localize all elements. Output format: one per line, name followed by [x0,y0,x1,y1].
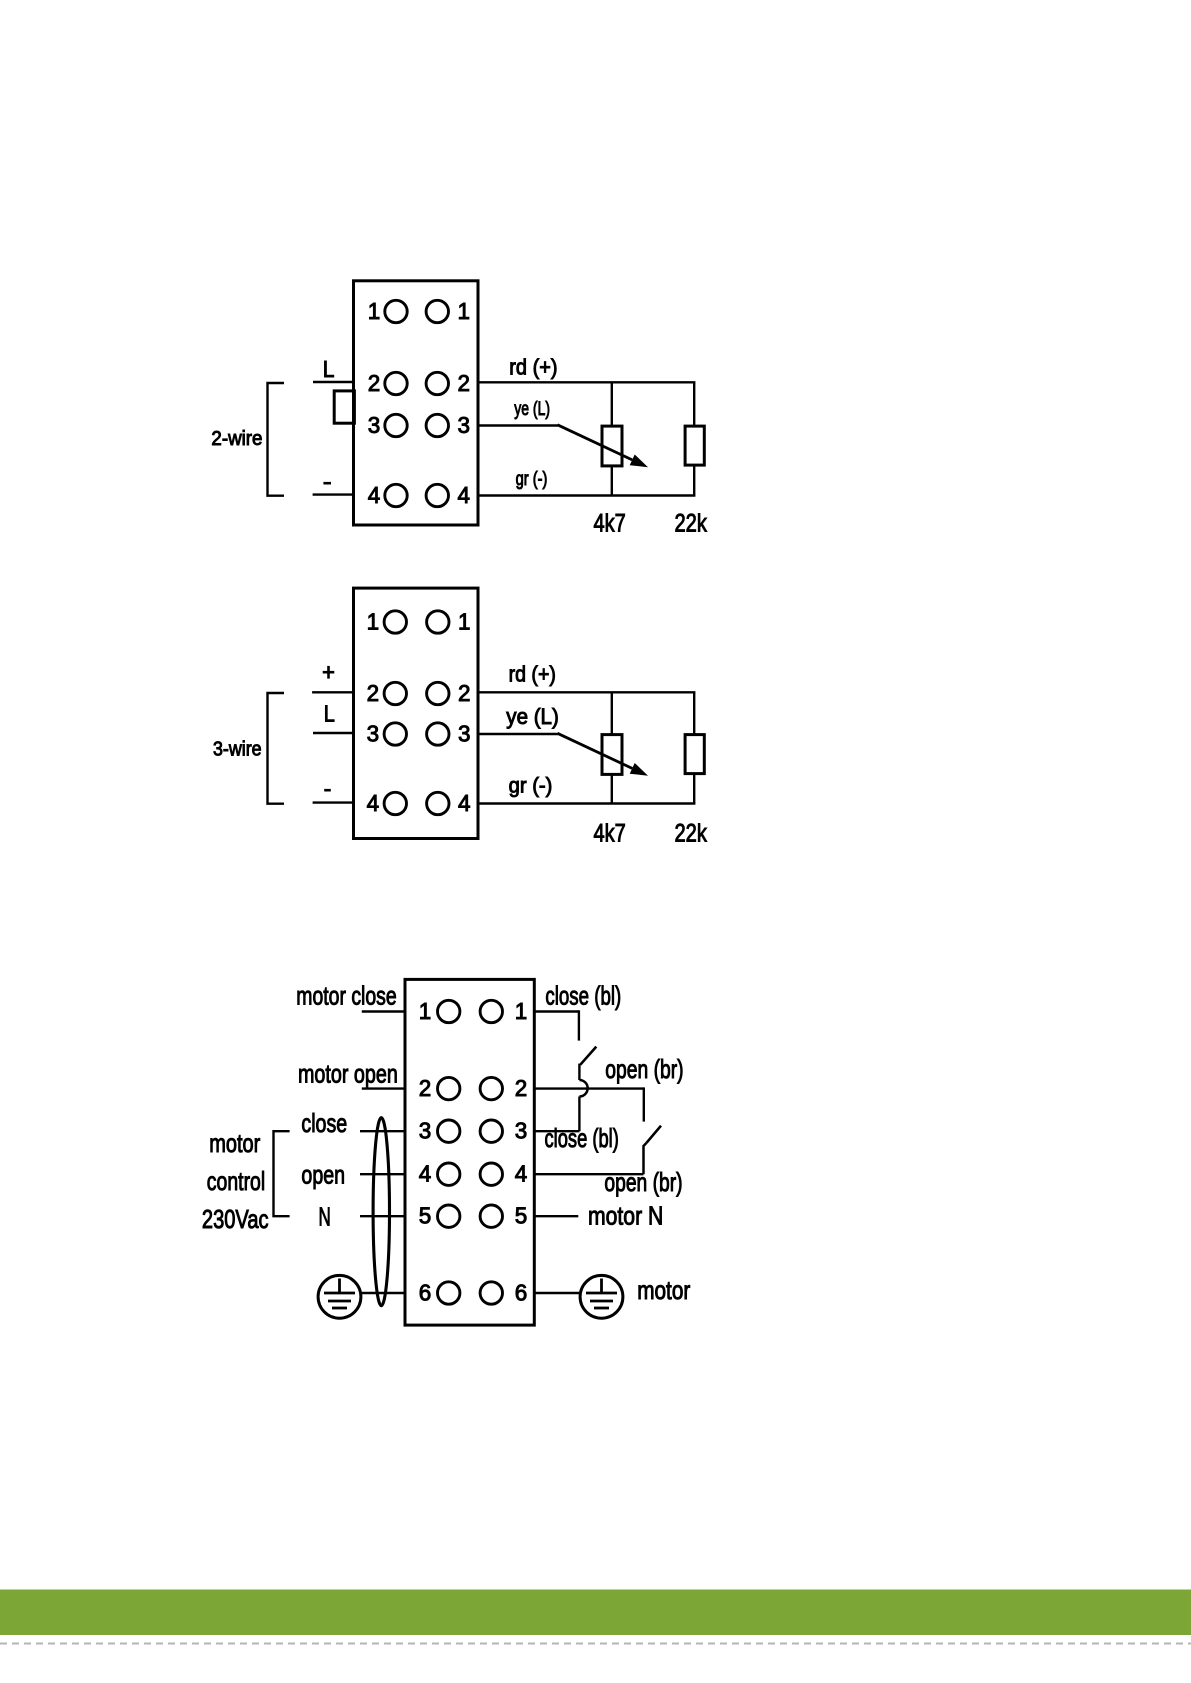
svg-text:1: 1 [368,298,381,324]
svg-text:ye (L): ye (L) [514,398,550,420]
label 2-wire [211,427,262,450]
wire close to terminal 3 [360,1130,405,1132]
pin number 1 (left) [367,608,380,634]
svg-text:6: 6 [515,1279,528,1305]
wire rd (+) node A [477,381,695,383]
svg-text:3: 3 [367,720,380,746]
wire ye (L) [477,733,558,735]
pin number 2 (left) [368,370,381,396]
svg-text:2: 2 [515,1075,528,1101]
svg-text:3-wire: 3-wire [213,738,262,761]
wire motor open to terminal 2 [362,1087,405,1089]
label N [319,1202,331,1232]
label gr (-) [509,774,553,798]
svg-text:rd (+): rd (+) [509,662,556,687]
wire ye (L) [477,424,558,426]
svg-text:5: 5 [419,1203,432,1229]
terminal 3 left contact [385,414,407,436]
resistor R2 22k [685,692,704,803]
label minus [324,789,331,792]
perforation dashed line [0,1643,1191,1645]
svg-text:motor N: motor N [588,1201,663,1231]
terminal 6 left contact [438,1282,460,1304]
wire S2 to terminal 4 [535,1143,647,1174]
pin number 3 (right) [457,412,470,438]
terminal 1 left contact [438,1000,460,1022]
terminal 1 left contact [385,300,407,322]
wire minus to terminal 4 [313,493,355,495]
svg-text:4: 4 [515,1161,528,1187]
wire ground to terminal 6 [362,1292,406,1294]
label close (bl) mid [545,1123,619,1153]
label open (br) bottom [604,1167,682,1197]
terminal block motor hookup [405,979,534,1325]
terminal 2 left contact [438,1077,460,1099]
label motor close [296,980,396,1010]
resistor R2 22k [685,382,704,495]
wire gr (-) node B [477,494,695,496]
pin number 1 (right) [458,608,471,634]
svg-text:22k: 22k [675,820,708,848]
svg-text:gr (-): gr (-) [509,774,553,798]
label 4k7 [594,820,626,848]
label motor [637,1275,690,1305]
potentiometer wiper arrow [558,733,649,776]
wire terminal 2 to switch S2 [535,1087,644,1121]
pin number 5 (right) [515,1203,528,1229]
svg-text:close (bl): close (bl) [545,1123,619,1153]
terminal 5 left contact [438,1205,460,1227]
terminal 2 right contact [480,1077,502,1099]
svg-text:3: 3 [419,1118,432,1144]
svg-text:motor: motor [637,1275,690,1305]
bracket 2-wire [268,383,285,496]
svg-text:22k: 22k [675,510,708,538]
terminal 2 left contact [385,372,407,394]
pin number 3 (left) [367,720,380,746]
potentiometer R1 4k7 [602,382,622,495]
terminal 4 right contact [480,1163,502,1185]
pin number 3 (right) [515,1118,528,1144]
pin number 2 (left) [419,1075,432,1101]
pin number 1 (left) [419,998,432,1024]
wire N to terminal 5 [360,1215,405,1217]
terminal 2 left contact [384,682,406,704]
pin number 4 (left) [368,482,381,508]
wire open to terminal 4 [360,1173,405,1175]
svg-text:rd (+): rd (+) [509,354,557,379]
bracket 3-wire [268,693,285,804]
label 4k7 [594,510,626,538]
terminal 4 left contact [385,484,407,506]
terminal 3 left contact [384,723,406,745]
pin number 2 (left) [367,680,380,706]
svg-text:3: 3 [457,412,470,438]
terminal block 3-wire hookup [354,588,479,838]
pin number 3 (left) [368,412,381,438]
svg-text:open (br): open (br) [604,1167,682,1197]
label rd (+) [509,662,556,687]
bracket motor control [274,1131,290,1216]
svg-text:3: 3 [368,412,381,438]
wire L to terminal 3 [313,732,355,734]
pin number 2 (right) [457,370,470,396]
wire terminal 5 motor N [535,1215,578,1217]
pin number 1 (right) [457,298,470,324]
label gr (-) [516,469,548,490]
pin number 1 (right) [515,998,528,1024]
svg-text:4: 4 [419,1161,432,1187]
svg-text:4k7: 4k7 [594,820,626,848]
terminal 1 right contact [480,1000,502,1022]
label motor N [588,1201,663,1231]
svg-text:motor close: motor close [296,980,396,1010]
svg-text:ye (L): ye (L) [506,704,559,729]
wire gr (-) node B [477,802,695,804]
terminal 4 left contact [384,792,406,814]
terminal block 2-wire hookup [354,281,479,525]
pin number 4 (right) [515,1161,528,1187]
pin number 4 (right) [457,482,470,508]
pin number 2 (right) [515,1075,528,1101]
svg-text:4k7: 4k7 [594,510,626,538]
ground PE left [318,1275,361,1318]
terminal 4 left contact [438,1163,460,1185]
label 3-wire [213,738,262,761]
label motor control 230Vac [202,1128,269,1234]
label close (bl) top [545,981,621,1011]
terminal 5 right contact [480,1205,502,1227]
potentiometer R1 4k7 [602,692,622,803]
svg-text:L: L [323,356,335,382]
label 22k [675,510,708,538]
svg-text:N: N [319,1202,331,1232]
wire terminal 6 to ground [535,1292,580,1294]
pin number 4 (left) [367,790,380,816]
label ye (L) [514,398,550,420]
terminal 3 right contact [427,723,449,745]
pin number 6 (right) [515,1279,528,1305]
svg-text:close: close [301,1108,347,1138]
terminal 4 right contact [426,484,448,506]
svg-text:6: 6 [419,1279,432,1305]
svg-text:2: 2 [457,370,470,396]
svg-text:open (br): open (br) [605,1054,683,1084]
ground PE motor [580,1275,623,1318]
terminal 3 right contact [426,414,448,436]
terminal 2 right contact [426,372,448,394]
svg-text:open: open [301,1160,345,1190]
svg-text:L: L [324,701,335,727]
svg-text:4: 4 [457,482,470,508]
pin number 3 (right) [458,720,471,746]
label 22k [675,820,708,848]
pin number 6 (left) [419,1279,432,1305]
svg-text:4: 4 [458,790,471,816]
svg-text:2-wire: 2-wire [211,427,262,450]
svg-text:gr (-): gr (-) [516,469,548,490]
terminal 1 left contact [384,611,406,633]
terminal 1 right contact [426,300,448,322]
svg-text:230Vac: 230Vac [202,1204,269,1234]
svg-text:control: control [207,1166,265,1196]
svg-text:5: 5 [515,1203,528,1229]
pin number 4 (right) [458,790,471,816]
pin number 1 (left) [368,298,381,324]
svg-text:1: 1 [515,998,528,1024]
svg-text:motor open: motor open [298,1059,398,1089]
svg-text:1: 1 [457,298,470,324]
label ye (L) [506,704,559,729]
svg-text:2: 2 [367,680,380,706]
label close [301,1108,347,1138]
svg-text:close (bl): close (bl) [545,981,621,1011]
pin number 4 (left) [419,1161,432,1187]
switch S2 blade (limit switch open) [647,1126,662,1143]
pin number 5 (left) [419,1203,432,1229]
svg-text:3: 3 [515,1118,528,1144]
label open (br) top [605,1054,683,1084]
label L [323,356,335,382]
wire terminal 1 to switch S1 [535,1010,579,1040]
svg-text:2: 2 [458,680,471,706]
wire plus to terminal 2 [312,691,355,693]
svg-text:1: 1 [458,608,471,634]
svg-text:2: 2 [368,370,381,396]
label rd (+) [509,354,557,379]
label minus [323,482,331,485]
svg-text:4: 4 [367,790,380,816]
svg-text:4: 4 [368,482,381,508]
label open [301,1160,345,1190]
svg-text:1: 1 [419,998,432,1024]
label motor open [298,1059,398,1089]
wire motor close to terminal 1 [362,1010,405,1012]
svg-text:1: 1 [367,608,380,634]
green footer bar [0,1590,1191,1636]
label plus [323,666,335,679]
terminal 4 right contact [427,792,449,814]
terminal 3 left contact [438,1120,460,1142]
terminal 1 right contact [427,611,449,633]
label L [324,701,335,727]
svg-text:2: 2 [419,1075,432,1101]
wire S1 to terminal 3 with hop over wire 2 [535,1064,588,1132]
switch S1 blade (limit switch close) [580,1047,596,1065]
terminal 6 right contact [480,1282,502,1304]
pin number 3 (left) [419,1118,432,1144]
svg-text:3: 3 [458,720,471,746]
terminal 3 right contact [480,1120,502,1142]
terminal 2 right contact [427,682,449,704]
wire rd (+) node A [477,691,695,693]
pin number 2 (right) [458,680,471,706]
jumper link terminals 2-3 [334,391,354,423]
wire minus to terminal 4 [313,801,355,803]
wire L to terminal 2 [313,381,355,383]
potentiometer wiper arrow [558,425,649,468]
cable sheath ellipse [373,1118,389,1306]
svg-text:motor: motor [209,1128,260,1158]
